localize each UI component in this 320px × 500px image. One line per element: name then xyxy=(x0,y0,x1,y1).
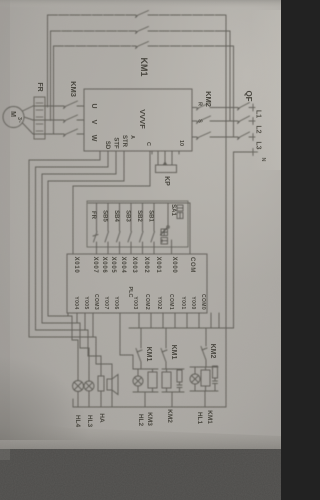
potentiometer KP wires xyxy=(158,154,172,165)
group B rail drop xyxy=(171,392,173,407)
top photo edge band xyxy=(0,0,281,8)
wire group A drop xyxy=(140,328,142,348)
wire SD route (outermost nested, staircase to buzzer) xyxy=(29,151,112,379)
panel box SA1 enclosure xyxy=(87,201,188,247)
wire mains row 2 xyxy=(192,120,255,122)
wire N stub past tick xyxy=(253,151,258,153)
group C top tie xyxy=(190,366,218,368)
wire Y005 drop to group A xyxy=(120,313,133,369)
resistor HA body xyxy=(98,376,104,391)
snubber resistor group C xyxy=(213,366,218,378)
breaker QF pole 2 xyxy=(238,116,250,124)
selector SA1 chinese position marks xyxy=(161,205,183,244)
wire STR route (staircase to lamp HL3) xyxy=(42,151,116,381)
coil KM2 xyxy=(162,372,171,388)
breaker QF pole 3 xyxy=(238,132,250,140)
PLC box xyxy=(67,254,207,313)
lamp HL1 xyxy=(190,374,200,384)
group A bottom tie xyxy=(133,391,158,393)
pushbutton SB2 xyxy=(140,203,144,254)
wire right drop line2 to mains row2 xyxy=(229,31,231,121)
wire COM bus xyxy=(129,327,234,329)
inverter bottom terminal ticks xyxy=(152,151,179,154)
motor phase wire mid xyxy=(33,119,84,121)
wire bottom common rail xyxy=(73,406,226,408)
wire group C drop xyxy=(205,328,207,346)
pushbutton SB4 xyxy=(117,203,121,254)
wire COM terminal drops xyxy=(139,313,219,328)
bottom dark table band xyxy=(0,419,281,500)
thermal relay FR heater box xyxy=(34,97,45,139)
wire left drop from line3 to motor phase xyxy=(53,46,55,134)
terminal tick L2 xyxy=(252,118,254,125)
contact KM3 pole 2 xyxy=(64,115,78,123)
group B top tie xyxy=(162,368,184,370)
inverter U1 box VVVF xyxy=(84,89,192,151)
wire vertical to inverter terminal xyxy=(149,151,151,186)
contact KM1 NC for group B xyxy=(161,349,167,370)
wire right drop line3 to mains row3 xyxy=(233,46,235,137)
wire top phase line 3 xyxy=(54,45,234,47)
thermal relay FR element marks xyxy=(36,103,43,131)
contact KM2 NC for group C xyxy=(201,347,207,368)
paper grain overlay xyxy=(0,0,1,1)
group B bottom tie xyxy=(162,391,184,393)
contact KM1 pole 3 xyxy=(136,42,149,49)
lamp HL4 xyxy=(73,381,84,392)
left edge subtle shade xyxy=(0,0,10,460)
contact KM2 pole 1 xyxy=(197,103,211,111)
wire N row xyxy=(234,151,254,153)
pushbutton SB5 xyxy=(105,203,109,254)
pushbutton SB1 xyxy=(151,203,155,254)
contact KM1 pole 1 xyxy=(136,11,149,18)
contact KM3 pole 3 xyxy=(64,129,78,137)
lamp rail stubs xyxy=(78,390,112,407)
wire left drop from line2 to motor phase xyxy=(50,31,52,121)
group C bottom tie xyxy=(190,390,218,392)
pushbutton SB3 xyxy=(128,203,132,254)
right edge light xyxy=(0,0,1,1)
wire mains row 3 xyxy=(192,136,255,138)
potentiometer KP wiper arrow xyxy=(164,162,167,165)
wire A route (innermost, staircase to lamp HL4) xyxy=(48,151,124,381)
wire N vertical down xyxy=(233,152,235,328)
wire right drop line1 to mains row1 xyxy=(225,15,227,108)
selector SA1 symbol xyxy=(167,226,170,229)
wire rail X010 horizontal xyxy=(73,185,150,187)
contact KM1 pole 2 xyxy=(136,27,149,34)
group A top tie xyxy=(133,368,158,370)
terminal tick N xyxy=(252,149,254,156)
wire left drop from line1 to motor phase xyxy=(47,15,49,107)
motor phase wire bottom xyxy=(33,133,84,135)
contact KM1 NC for group A xyxy=(136,349,142,370)
wire X010 drop xyxy=(72,186,74,254)
wire STF route (staircase to resistor HA) xyxy=(36,151,109,376)
lamp HL3 xyxy=(84,381,94,391)
wire group B drop xyxy=(165,328,167,348)
terminal tick L1 xyxy=(252,104,254,111)
potentiometer KP body xyxy=(156,165,177,173)
motor M1 circle xyxy=(3,107,24,128)
bottom-left corner shadow xyxy=(0,0,1,1)
coil KM1 xyxy=(201,370,210,386)
wire COM drop xyxy=(189,203,191,254)
lamp HL2 xyxy=(133,376,143,386)
contact KM2 pole 3 xyxy=(197,132,211,140)
group C rail drop xyxy=(204,391,206,407)
group A rail drop xyxy=(144,392,146,407)
contact KM2 pole 2 xyxy=(197,116,211,124)
wire PLC output stubs to staircases xyxy=(68,313,93,337)
wire top phase line 2 xyxy=(51,30,231,32)
wire mains row 1 xyxy=(192,107,255,109)
buzzer speaker symbol xyxy=(107,379,112,390)
motor phase wire top xyxy=(33,105,84,107)
wire top phase line 1 xyxy=(48,14,227,16)
motor feed wires xyxy=(23,106,34,134)
terminal tick L3 xyxy=(252,134,254,141)
contact KM3 pole 1 xyxy=(64,101,78,109)
breaker QF pole 1 xyxy=(238,103,250,111)
pushbutton FR contact xyxy=(93,203,98,254)
wire button common rail xyxy=(88,202,190,204)
coil KM3 xyxy=(148,372,157,388)
wire right border vertical down to rail xyxy=(225,108,227,408)
snubber resistor group B xyxy=(177,370,182,382)
